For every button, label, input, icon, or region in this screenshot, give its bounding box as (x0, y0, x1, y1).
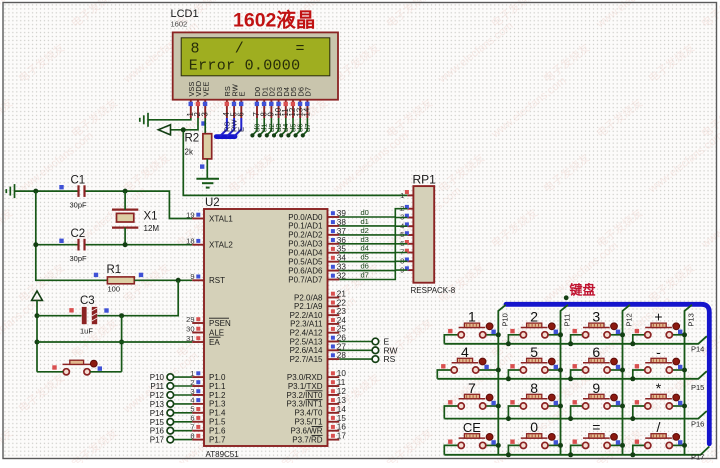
push button (reset) (63, 369, 69, 375)
svg-text:12M: 12M (144, 224, 160, 233)
wire VDD node (171, 118, 199, 130)
svg-text:P17: P17 (691, 453, 704, 462)
svg-text:P3.2/INT0: P3.2/INT0 (286, 391, 323, 400)
button wires (37, 371, 63, 373)
svg-text:30pF: 30pF (70, 254, 88, 263)
svg-text:P14: P14 (150, 409, 165, 418)
svg-text:31: 31 (186, 334, 194, 343)
svg-text:P2.1/A9: P2.1/A9 (294, 302, 323, 311)
wire d5 P0.5 to RP1 (339, 253, 407, 262)
terminal P14 (167, 410, 174, 417)
RP1 pin 4 (407, 225, 413, 227)
pin 38 P0.1/AD1 (328, 225, 340, 227)
LCD body (173, 32, 338, 99)
power terminal arrow (VDD) (158, 125, 170, 135)
svg-text:12: 12 (337, 387, 347, 396)
svg-text:P2.6/A14: P2.6/A14 (290, 346, 323, 355)
wire to bus (220, 118, 227, 137)
svg-text:1uF: 1uF (80, 327, 93, 336)
svg-text:=: = (592, 419, 600, 435)
capacitor C1 30pF (79, 185, 85, 197)
terminal RW (339, 349, 372, 351)
svg-text:VEE: VEE (201, 82, 210, 97)
key 3 button (571, 335, 583, 344)
pin 10 P3.0/RXD (328, 376, 340, 378)
svg-text:23: 23 (337, 307, 347, 316)
pin 35 P0.4/AD4 (328, 252, 340, 254)
svg-text:ALE: ALE (209, 328, 224, 337)
key 7 button (444, 406, 458, 419)
svg-text:RESPACK-8: RESPACK-8 (411, 286, 456, 295)
pin 19 XTAL1 (192, 218, 204, 220)
column wire P12 (623, 305, 631, 455)
svg-text:22: 22 (337, 298, 347, 307)
svg-text:1: 1 (400, 191, 404, 200)
wire R2 to ground (206, 159, 208, 179)
junction dot near label (564, 295, 569, 300)
pin 16 P3.6/WR (328, 430, 340, 432)
svg-text:17: 17 (337, 432, 347, 441)
pin 14 P3.4/T0 (328, 412, 340, 414)
terminal P17 (167, 436, 174, 443)
svg-text:P3.3/INT1: P3.3/INT1 (286, 400, 323, 409)
key 9 button (571, 406, 583, 419)
wire R1 to RST (134, 279, 192, 281)
svg-text:LCD1: LCD1 (171, 8, 199, 20)
pin 39 P0.0/AD0 (328, 216, 340, 218)
svg-text:d5: d5 (361, 253, 369, 262)
svg-text:P11: P11 (563, 314, 572, 327)
wire to bus (227, 118, 234, 137)
svg-text:P1.5: P1.5 (209, 418, 226, 427)
svg-text:6: 6 (237, 112, 246, 116)
wire C1 to X1 top / XTAL1 (86, 191, 193, 218)
key * button (633, 406, 645, 419)
resistor pack RP1 RESPACK-8 (413, 186, 434, 283)
svg-text:30pF: 30pF (70, 201, 88, 210)
RP1 pin 9 (407, 269, 413, 271)
wire d6 stub (296, 118, 300, 135)
svg-text:d0: d0 (361, 208, 369, 217)
svg-text:P2.0/A8: P2.0/A8 (294, 293, 323, 302)
key 2 button (508, 335, 520, 344)
svg-text:P1.6: P1.6 (209, 427, 226, 436)
svg-text:P2.4/A12: P2.4/A12 (290, 329, 323, 338)
wire d0 P0.0 to RP1 (339, 209, 407, 217)
svg-text:EA: EA (209, 338, 220, 347)
pin 3 P1.2 (192, 394, 204, 396)
svg-text:P12: P12 (625, 313, 634, 326)
wire d3 stub (274, 118, 278, 135)
svg-text:P2.3/A11: P2.3/A11 (290, 320, 323, 329)
junction C3 right (119, 313, 124, 318)
crystal X1 12M (112, 210, 138, 228)
svg-text:6: 6 (592, 344, 600, 360)
wire ground to C1 (15, 190, 78, 192)
capacitor C3 1uF electrolytic (37, 315, 82, 317)
svg-text:13: 13 (337, 396, 347, 405)
resistor R1 100 (107, 277, 134, 284)
pin 30 ALE (192, 332, 204, 334)
wire d4 stub (281, 118, 285, 135)
wire d6 P0.6 to RP1 (339, 261, 407, 270)
svg-text:5: 5 (530, 344, 538, 360)
svg-text:/: / (657, 419, 661, 435)
pin 22 P2.1/A9 (328, 305, 340, 307)
svg-text:P15: P15 (691, 383, 704, 392)
svg-text:RP1: RP1 (413, 173, 437, 187)
pin 11 P3.1/TXD (328, 385, 340, 387)
svg-text:XTAL1: XTAL1 (209, 214, 233, 223)
RP1 pin 5 (407, 234, 413, 236)
svg-text:9: 9 (592, 380, 600, 396)
svg-text:P15: P15 (150, 418, 165, 427)
svg-text:P1.0: P1.0 (209, 373, 226, 382)
svg-text:E: E (237, 127, 246, 132)
svg-text:RS: RS (384, 354, 396, 364)
svg-text:P10: P10 (150, 373, 165, 382)
svg-text:P0.3/AD3: P0.3/AD3 (288, 240, 323, 249)
svg-text:-: - (656, 344, 661, 360)
svg-text:P3.7/RD: P3.7/RD (292, 435, 322, 444)
key / button (633, 445, 645, 454)
junction VDD node (181, 127, 186, 132)
RP1 pin 2 (407, 208, 413, 210)
terminal P11 (167, 383, 174, 390)
wire d1 P0.1 to RP1 (339, 218, 407, 226)
wire d2 stub (267, 118, 271, 135)
RP1 pin 1 (407, 194, 413, 196)
svg-text:C2: C2 (71, 228, 86, 240)
wire C3 node down (121, 316, 123, 372)
svg-text:*: * (656, 380, 662, 396)
svg-text:21: 21 (337, 290, 347, 299)
svg-text:P14: P14 (691, 345, 704, 354)
wire d7 P0.7 to RP1 (339, 270, 407, 279)
svg-text:C3: C3 (80, 295, 95, 307)
svg-text:P0.5/AD5: P0.5/AD5 (288, 257, 323, 266)
pin 26 P2.5/A13 (328, 341, 340, 343)
svg-text:P13: P13 (687, 313, 696, 326)
terminal P10 (167, 374, 174, 381)
wire d0 stub (253, 118, 257, 135)
svg-text:P3.5/T1: P3.5/T1 (294, 418, 323, 427)
pin 6 P1.5 (192, 421, 204, 423)
wire d2 P0.2 to RP1 (339, 226, 407, 235)
pin 12 P3.2/INT0 (328, 394, 340, 396)
key 1 button (444, 335, 458, 344)
RP1 pin 3 (407, 217, 413, 219)
pin 36 P0.3/AD3 (328, 243, 340, 245)
svg-text:d7: d7 (303, 124, 312, 132)
svg-text:键盘: 键盘 (569, 283, 596, 298)
svg-text:11: 11 (337, 378, 346, 387)
wire d7 stub (303, 118, 307, 135)
svg-text:P1.2: P1.2 (209, 391, 226, 400)
svg-text:PSEN: PSEN (209, 319, 231, 328)
svg-text:U2: U2 (205, 197, 220, 209)
svg-text:3: 3 (592, 309, 600, 325)
ground (left) (6, 184, 14, 198)
capacitor C2 30pF (79, 239, 85, 251)
svg-text:9: 9 (190, 272, 194, 281)
svg-text:E: E (238, 92, 247, 97)
svg-text:d3: d3 (361, 235, 369, 244)
svg-text:8: 8 (191, 41, 200, 58)
key + button (633, 335, 645, 344)
svg-text:1: 1 (468, 309, 476, 325)
key 0 button (508, 445, 520, 454)
svg-text:14: 14 (303, 107, 312, 116)
svg-text:P1.7: P1.7 (209, 435, 226, 444)
wire d5 stub (289, 118, 293, 135)
svg-text:25: 25 (337, 325, 347, 334)
svg-text:0: 0 (530, 419, 538, 435)
svg-text:d7: d7 (361, 271, 369, 280)
svg-text:P0.6/AD6: P0.6/AD6 (288, 266, 323, 275)
power terminal arrow (VCC) (32, 291, 43, 300)
svg-text:P2.2/A10: P2.2/A10 (290, 311, 323, 320)
wire VDD to RP1 pin1 (183, 130, 407, 196)
svg-text:19: 19 (186, 210, 194, 219)
svg-text:24: 24 (337, 316, 347, 325)
pin 5 P1.4 (192, 412, 204, 414)
pin 13 P3.3/INT1 (328, 403, 340, 405)
svg-text:P2.5/A13: P2.5/A13 (290, 337, 323, 346)
svg-text:P11: P11 (150, 382, 164, 391)
pin 21 P2.0/A8 (328, 297, 340, 299)
svg-text:P10: P10 (500, 313, 509, 326)
svg-text:P16: P16 (150, 427, 165, 436)
svg-text:14: 14 (337, 405, 347, 414)
svg-text:R1: R1 (107, 264, 122, 276)
svg-text:C1: C1 (71, 175, 86, 187)
key 5 button (508, 370, 520, 379)
svg-text:18: 18 (186, 237, 194, 246)
pin 9 RST (192, 279, 204, 281)
pin 15 P3.5/T1 (328, 421, 340, 423)
pin 17 P3.7/RD (328, 439, 340, 441)
AT89C51 U2 body (204, 209, 328, 446)
svg-text:P1.1: P1.1 (209, 382, 226, 391)
svg-text:P0.1/AD1: P0.1/AD1 (288, 222, 323, 231)
svg-text:29: 29 (186, 315, 194, 324)
row wire P17 (444, 447, 709, 455)
svg-text:7: 7 (468, 380, 476, 396)
pin 32 P0.7/AD7 (328, 279, 340, 281)
pin 31 EA (192, 341, 204, 343)
svg-text:8: 8 (530, 380, 538, 396)
RP1 pin 6 (407, 243, 413, 245)
ground (LCD VSS) (140, 113, 148, 127)
row wire P15 (437, 371, 707, 379)
left rail (36, 191, 107, 280)
RP1 pin 8 (407, 260, 413, 262)
pin 24 P2.3/A11 (328, 323, 340, 325)
wire d3 P0.3 to RP1 (339, 235, 407, 244)
VCC rail down (36, 300, 38, 371)
pin 37 P0.2/AD2 (328, 234, 340, 236)
column wire P10 (498, 305, 506, 455)
LCD text line 1 (189, 41, 305, 75)
svg-text:4: 4 (461, 344, 469, 360)
svg-text:100: 100 (108, 285, 121, 294)
pin 27 P2.6/A14 (328, 349, 340, 351)
pin 33 P0.6/AD6 (328, 270, 340, 272)
svg-text:=: = (296, 41, 305, 58)
terminal E (339, 341, 372, 343)
terminal P12 (167, 392, 174, 399)
svg-text:3: 3 (200, 112, 209, 116)
junction (33, 189, 38, 194)
RP1 pin 7 (407, 252, 413, 254)
terminal P13 (167, 401, 174, 408)
terminal P15 (167, 419, 174, 426)
svg-text:1602液晶: 1602液晶 (233, 9, 315, 32)
pin 23 P2.2/A10 (328, 314, 340, 316)
column wire P13 (685, 305, 693, 455)
svg-text:P3.4/T0: P3.4/T0 (294, 409, 323, 418)
svg-text:P3.6/WR: P3.6/WR (290, 427, 322, 436)
svg-text:P0.4/AD4: P0.4/AD4 (288, 249, 323, 258)
wire to bus (234, 118, 241, 137)
svg-text:P16: P16 (691, 420, 704, 429)
key 6 button (571, 370, 583, 379)
svg-text:P0.2/AD2: P0.2/AD2 (288, 231, 323, 240)
key CE button (444, 445, 458, 454)
wire RST down to C3 node (97, 280, 178, 315)
svg-text:R2: R2 (185, 133, 200, 145)
svg-text:Error 0.0000: Error 0.0000 (189, 58, 301, 75)
svg-text:XTAL2: XTAL2 (209, 241, 233, 250)
keypad bus (blue) (506, 304, 709, 444)
terminal P16 (167, 427, 174, 434)
pin 8 P1.7 (192, 439, 204, 441)
pin 34 P0.5/AD5 (328, 261, 340, 263)
resistor R2 2k (204, 118, 206, 134)
svg-text:/: / (235, 41, 244, 58)
key 8 button (508, 406, 520, 419)
pin 25 P2.4/A12 (328, 332, 340, 334)
X1 stubs (124, 191, 126, 210)
svg-text:d4: d4 (361, 244, 369, 253)
svg-text:RST: RST (209, 276, 225, 285)
svg-text:P0.7/AD7: P0.7/AD7 (288, 275, 323, 284)
pin 4 P1.3 (192, 403, 204, 405)
pin 2 P1.1 (192, 385, 204, 387)
svg-text:X1: X1 (144, 211, 158, 223)
wire VSS to ground (148, 118, 191, 120)
row wire P14 (444, 336, 707, 344)
svg-text:d1: d1 (361, 217, 369, 226)
svg-text:P12: P12 (150, 391, 165, 400)
pin 28 P2.7/A15 (328, 358, 340, 360)
wire d1 stub (260, 118, 264, 135)
svg-text:d2: d2 (361, 226, 369, 235)
svg-text:16: 16 (337, 423, 347, 432)
row wire P16 (444, 411, 707, 419)
key - button (633, 370, 645, 379)
svg-text:+: + (654, 309, 662, 325)
ground (R2) (196, 179, 219, 188)
svg-text:D7: D7 (304, 87, 313, 96)
svg-text:P0.0/AD0: P0.0/AD0 (288, 213, 323, 222)
pin 7 P1.6 (192, 430, 204, 432)
svg-text:d6: d6 (361, 262, 369, 271)
pin 29 PSEN (192, 322, 204, 324)
svg-text:P13: P13 (150, 400, 165, 409)
bus segment (RS/RW/E) (216, 134, 235, 139)
key 4 button (437, 370, 451, 379)
svg-text:30: 30 (186, 324, 194, 333)
svg-text:2k: 2k (185, 148, 194, 157)
wire C2 row / XTAL2 (36, 244, 78, 246)
svg-text:P17: P17 (150, 436, 165, 445)
svg-text:P1.4: P1.4 (209, 409, 226, 418)
column wire P11 (561, 305, 569, 455)
svg-text:1602: 1602 (171, 20, 188, 29)
pin 18 XTAL2 (192, 244, 204, 246)
svg-text:CE: CE (463, 420, 481, 435)
wire d4 P0.4 to RP1 (339, 244, 407, 253)
svg-text:P1.3: P1.3 (209, 400, 226, 409)
terminal RS (339, 358, 372, 360)
key = button (571, 445, 583, 454)
svg-text:AT89C51: AT89C51 (206, 450, 240, 459)
wire EA row (37, 341, 192, 343)
svg-text:10: 10 (337, 369, 347, 378)
pin 1 P1.0 (192, 376, 204, 378)
svg-text:P2.7/A15: P2.7/A15 (290, 355, 323, 364)
svg-text:2: 2 (530, 309, 538, 325)
svg-text:P3.1/TXD: P3.1/TXD (288, 382, 323, 391)
LCD screen (181, 38, 330, 76)
svg-text:P3.0/RXD: P3.0/RXD (287, 373, 323, 382)
svg-text:15: 15 (337, 414, 347, 423)
